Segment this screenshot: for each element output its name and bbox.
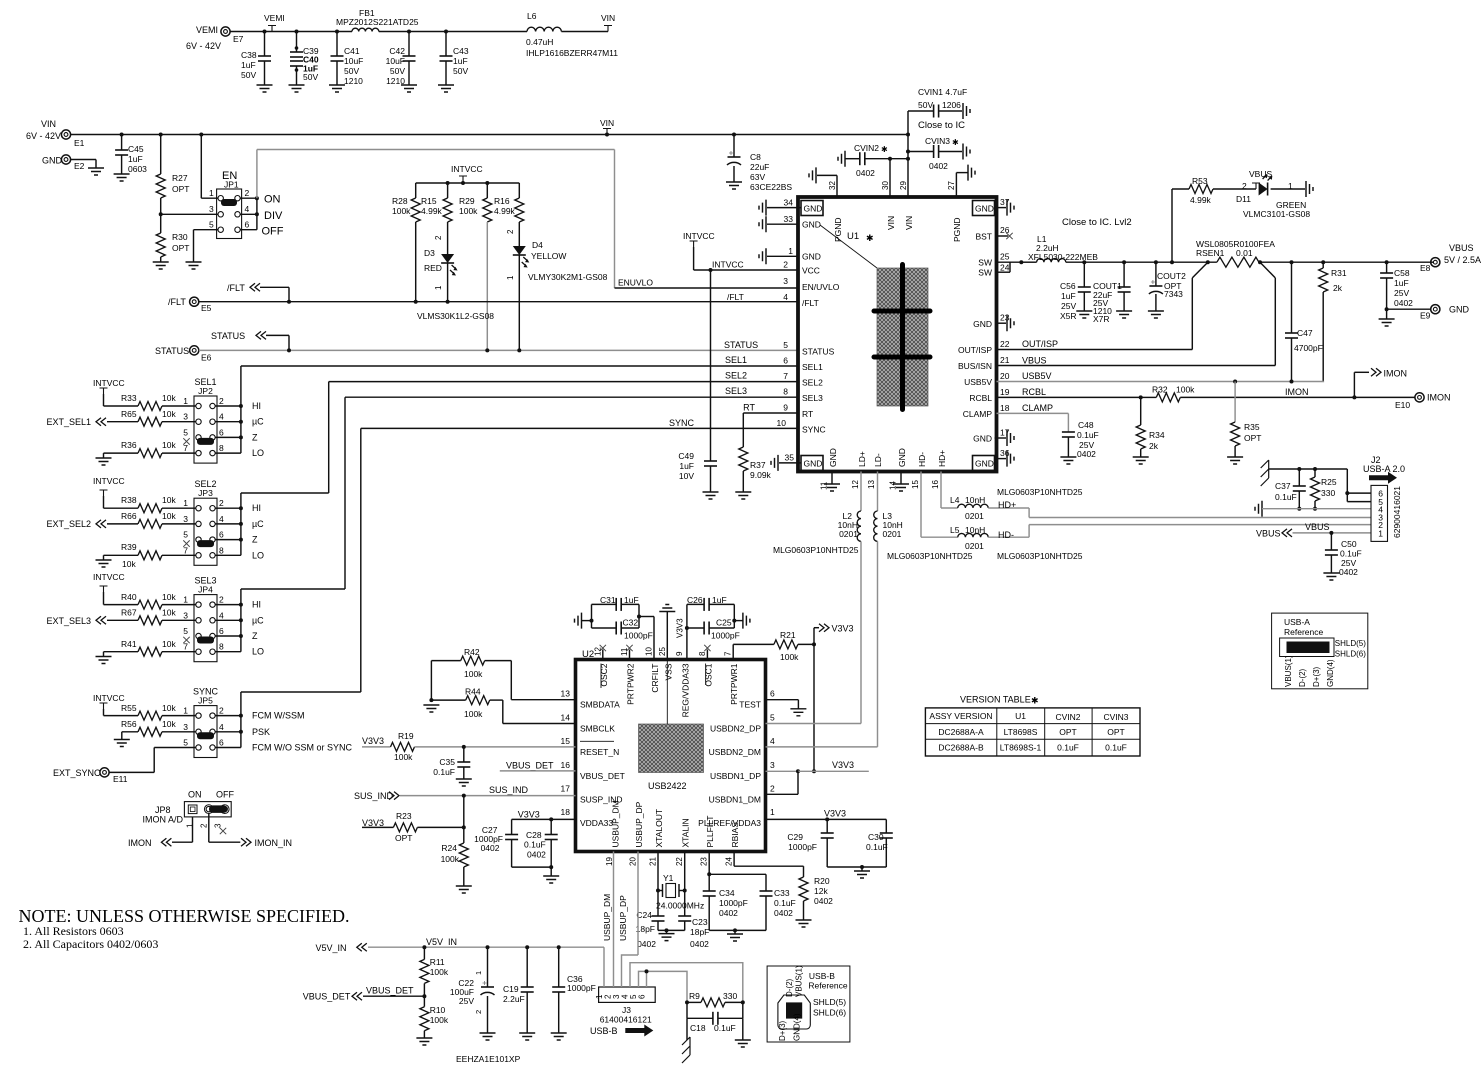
label MLG L2 xyxy=(773,545,859,555)
capacitor C19 xyxy=(503,947,534,1033)
svg-text:0603: 0603 xyxy=(128,164,147,174)
svg-text:✱: ✱ xyxy=(1031,696,1039,706)
svg-text:REG/VDDA33: REG/VDDA33 xyxy=(681,663,691,717)
shunt JP2 xyxy=(197,438,214,445)
svg-text:VBUS: VBUS xyxy=(1305,522,1330,532)
pin 1 xyxy=(183,595,201,608)
svg-text:SYNC: SYNC xyxy=(669,418,695,428)
svg-text:36: 36 xyxy=(1000,448,1010,458)
wire USBUP_DM xyxy=(602,852,614,988)
svg-text:VCC: VCC xyxy=(802,266,820,276)
svg-text:16: 16 xyxy=(931,480,940,489)
capacitor C38 xyxy=(241,32,271,86)
svg-text:FCM W/O SSM or SYNC: FCM W/O SSM or SYNC xyxy=(252,743,353,753)
ground xyxy=(543,876,559,883)
ground VSS xyxy=(659,605,675,660)
ground xyxy=(1116,311,1132,318)
svg-text:DC2688A-A: DC2688A-A xyxy=(938,727,984,737)
svg-text:8: 8 xyxy=(783,387,788,397)
svg-text:330: 330 xyxy=(1321,488,1335,498)
svg-text:0.1uF: 0.1uF xyxy=(524,840,546,850)
svg-text:10k: 10k xyxy=(162,608,176,618)
svg-text:RESET_N: RESET_N xyxy=(580,747,619,757)
svg-text:22uF: 22uF xyxy=(750,162,769,172)
wire HD- row xyxy=(1029,524,1371,526)
svg-text:2: 2 xyxy=(219,396,224,406)
wire SEL3 row xyxy=(345,386,798,397)
ground xyxy=(456,886,472,893)
svg-text:SUS_IND: SUS_IND xyxy=(489,785,529,795)
svg-text:GND: GND xyxy=(975,204,994,214)
svg-text:V5V_IN: V5V_IN xyxy=(316,943,347,953)
svg-text:0.47uH: 0.47uH xyxy=(526,37,553,47)
pin 3 xyxy=(183,722,201,735)
svg-text:3: 3 xyxy=(183,610,188,620)
svg-text:0201: 0201 xyxy=(883,529,902,539)
svg-text:0402: 0402 xyxy=(481,843,500,853)
pin 1 xyxy=(186,805,198,828)
capacitor CVIN1 xyxy=(906,87,970,137)
svg-text:1uF: 1uF xyxy=(128,154,143,164)
svg-text:ON: ON xyxy=(188,790,202,800)
pin 25 VSS xyxy=(658,647,674,681)
svg-text:SW: SW xyxy=(978,268,992,278)
svg-text:D-(2): D-(2) xyxy=(785,978,794,997)
pin 1 xyxy=(209,188,223,201)
svg-text:8: 8 xyxy=(219,545,224,555)
svg-text:100k: 100k xyxy=(430,967,449,977)
pin 4 xyxy=(210,514,224,527)
svg-text:JP3: JP3 xyxy=(198,488,213,498)
junction xyxy=(446,181,490,185)
svg-text:3: 3 xyxy=(183,412,188,422)
pin 2 xyxy=(210,498,224,511)
svg-text:10k: 10k xyxy=(162,511,176,521)
VSS internal wire xyxy=(666,661,668,724)
svg-text:50V: 50V xyxy=(918,100,933,110)
label µC xyxy=(252,417,264,427)
svg-text:4.99k: 4.99k xyxy=(421,206,443,216)
svg-text:R40: R40 xyxy=(121,592,137,602)
wire xyxy=(417,796,465,830)
pin 5 xyxy=(183,738,201,751)
ground xyxy=(438,85,454,92)
ground xyxy=(88,168,104,175)
capacitor C36 xyxy=(552,947,596,1033)
svg-text:25V: 25V xyxy=(1061,301,1076,311)
svg-text:10: 10 xyxy=(777,418,787,428)
svg-text:VERSION TABLE: VERSION TABLE xyxy=(960,695,1031,705)
wire xyxy=(240,212,259,216)
svg-text:50V: 50V xyxy=(303,72,318,82)
wire IMON row xyxy=(1180,387,1415,399)
svg-text:1: 1 xyxy=(506,275,515,280)
svg-text:5: 5 xyxy=(783,340,788,350)
pin 10 CRFILT xyxy=(645,647,661,693)
svg-text:25: 25 xyxy=(658,647,667,656)
node EXT_SEL3 xyxy=(46,616,138,626)
ground xyxy=(1379,319,1395,326)
wire xyxy=(766,700,799,709)
ground xyxy=(1076,311,1092,318)
pin 3 xyxy=(183,514,201,527)
node EXT_SEL1 xyxy=(46,417,138,427)
turret E8 xyxy=(1420,243,1481,273)
resistor R35 xyxy=(1231,382,1262,458)
wire HD+ from pin16 xyxy=(941,472,958,509)
svg-text:R32: R32 xyxy=(1152,385,1168,395)
svg-text:STATUS: STATUS xyxy=(802,347,835,357)
svg-text:4: 4 xyxy=(219,722,224,732)
resistor R11 xyxy=(420,947,449,996)
capacitor C25 xyxy=(704,618,740,641)
pin 2 xyxy=(200,805,214,828)
wire xyxy=(215,421,241,423)
wire xyxy=(215,554,241,556)
svg-text:1000pF: 1000pF xyxy=(624,631,653,641)
svg-text:0402: 0402 xyxy=(719,908,738,918)
pin 2 xyxy=(210,706,224,719)
svg-text:U1: U1 xyxy=(847,231,859,242)
pin 1 xyxy=(183,498,201,511)
svg-text:24: 24 xyxy=(725,857,734,866)
wire xyxy=(215,619,241,621)
resistor R53 xyxy=(1170,176,1256,264)
svg-text:R39: R39 xyxy=(121,542,137,552)
wire xyxy=(379,31,527,33)
svg-text:LD+: LD+ xyxy=(857,451,867,467)
wire xyxy=(215,539,241,541)
label µC xyxy=(252,615,264,625)
wire SEL1 bus xyxy=(240,366,242,406)
svg-text:22: 22 xyxy=(1000,339,1010,349)
crystal Y1 xyxy=(656,873,704,911)
ground xyxy=(1227,457,1243,464)
pin 11 xyxy=(820,448,841,491)
pin 5 xyxy=(183,530,201,543)
pin 5 xyxy=(183,427,201,440)
label Z xyxy=(252,432,258,442)
power INTVCC xyxy=(93,378,138,406)
wire xyxy=(215,604,241,606)
wire rail xyxy=(240,716,242,748)
wire USBDN1 V3V3 xyxy=(766,760,869,773)
svg-text:1000pF: 1000pF xyxy=(788,842,817,852)
svg-text:D11: D11 xyxy=(1236,194,1251,204)
node VBUS_DET arrow xyxy=(303,986,427,1002)
svg-text:SHLD(5): SHLD(5) xyxy=(1335,639,1366,648)
svg-text:0402: 0402 xyxy=(690,939,709,949)
resistor R31 xyxy=(1319,260,1347,381)
capacitor C33 xyxy=(760,888,796,930)
pin 12 LD+ xyxy=(851,451,867,489)
svg-text:GND(4): GND(4) xyxy=(1326,659,1335,687)
resistor R29 xyxy=(459,183,492,350)
svg-text:MLG0603P10NHTD25: MLG0603P10NHTD25 xyxy=(773,545,859,555)
svg-text:1uF: 1uF xyxy=(679,461,694,471)
wire xyxy=(215,405,241,407)
svg-text:50V: 50V xyxy=(344,66,359,76)
ground xyxy=(1133,457,1149,464)
svg-text:XTALOUT: XTALOUT xyxy=(654,809,664,848)
ground xyxy=(551,1033,567,1040)
wire SYNC bus xyxy=(241,428,361,715)
wire xyxy=(827,865,886,871)
svg-text:OUT/ISP: OUT/ISP xyxy=(1022,339,1058,349)
svg-text:IMON: IMON xyxy=(1285,387,1309,397)
svg-text:14: 14 xyxy=(561,713,571,723)
pin 8 xyxy=(210,545,224,558)
ground xyxy=(96,458,112,465)
svg-text:10k: 10k xyxy=(122,559,136,569)
USB-A reference box xyxy=(1272,613,1368,689)
svg-text:1000pF: 1000pF xyxy=(567,983,596,993)
svg-text:8: 8 xyxy=(219,642,224,652)
svg-text:25V: 25V xyxy=(1394,288,1409,298)
wire xyxy=(215,523,241,525)
svg-text:C30: C30 xyxy=(868,832,884,842)
svg-text:3: 3 xyxy=(209,204,214,214)
svg-text:25: 25 xyxy=(1000,252,1010,262)
svg-text:4700pF: 4700pF xyxy=(1294,343,1323,353)
svg-text:VLMC3101-GS08: VLMC3101-GS08 xyxy=(1243,209,1310,219)
svg-text:5: 5 xyxy=(209,220,214,230)
turret E9 xyxy=(1385,305,1470,321)
svg-text:J3: J3 xyxy=(622,1005,631,1015)
svg-text:2: 2 xyxy=(783,260,788,270)
svg-text:INTVCC: INTVCC xyxy=(712,260,744,270)
svg-text:E9: E9 xyxy=(1420,311,1431,321)
wire xyxy=(709,928,766,934)
pin 5 xyxy=(209,220,223,233)
svg-text:R10: R10 xyxy=(430,1005,446,1015)
svg-text:R16: R16 xyxy=(494,196,510,206)
wire xyxy=(215,731,241,733)
svg-text:7: 7 xyxy=(724,651,733,656)
svg-text:33: 33 xyxy=(784,214,794,224)
svg-text:R19: R19 xyxy=(398,731,414,741)
svg-text:FCM W/SSM: FCM W/SSM xyxy=(252,711,305,721)
svg-text:2: 2 xyxy=(770,783,775,793)
pin 19 RCBL xyxy=(969,387,1046,403)
wire xyxy=(109,748,196,773)
svg-text:CVIN1 4.7uF: CVIN1 4.7uF xyxy=(918,87,967,97)
svg-text:C23: C23 xyxy=(692,917,708,927)
svg-text:6: 6 xyxy=(219,427,224,437)
svg-text:C45: C45 xyxy=(128,144,144,154)
svg-text:PLLFILT: PLLFILT xyxy=(705,816,715,848)
shunt JP4 xyxy=(197,637,214,644)
svg-text:OSC1: OSC1 xyxy=(703,663,713,686)
svg-text:INTVCC: INTVCC xyxy=(683,231,715,241)
wire SEL1 row xyxy=(241,355,798,366)
pin 14 xyxy=(889,448,910,491)
svg-text:RED: RED xyxy=(424,263,442,273)
wire VBUS row xyxy=(1293,522,1372,535)
svg-text:EXT_SEL3: EXT_SEL3 xyxy=(46,616,91,626)
pin 20 USBUP_DP xyxy=(629,801,645,866)
svg-text:27: 27 xyxy=(947,181,956,190)
pin 19 USBUP_DM xyxy=(605,800,621,866)
svg-text:µC: µC xyxy=(252,615,264,625)
ground xyxy=(1148,311,1164,318)
U1 exposed pad xyxy=(874,265,930,410)
svg-text:4: 4 xyxy=(219,412,224,422)
pin 6 xyxy=(210,530,224,543)
svg-text:Reference: Reference xyxy=(1284,627,1323,637)
wire xyxy=(215,436,241,438)
svg-text:CLAMP: CLAMP xyxy=(963,409,993,419)
inductor L2 xyxy=(838,472,861,724)
diode D4 xyxy=(506,229,608,350)
node /FLT arrow xyxy=(227,283,291,304)
capacitor C43 xyxy=(440,30,469,86)
svg-text:OPT: OPT xyxy=(1244,433,1261,443)
pin 6 xyxy=(210,738,224,751)
svg-text:STATUS: STATUS xyxy=(211,331,245,341)
svg-text:DIV: DIV xyxy=(264,210,283,222)
wire kelvin ISP xyxy=(997,278,1193,350)
pin 18 CLAMP xyxy=(963,403,1053,419)
pin 4 xyxy=(235,204,250,217)
node V3V3 xyxy=(362,818,393,828)
svg-text:E10: E10 xyxy=(1395,400,1410,410)
svg-text:20: 20 xyxy=(629,857,638,866)
pin 5 USBDN2_DP xyxy=(710,713,775,734)
svg-text:R20: R20 xyxy=(814,876,830,886)
svg-text:CVIN3: CVIN3 xyxy=(1103,712,1128,722)
svg-text:10k: 10k xyxy=(162,495,176,505)
node EXT_SEL2 xyxy=(46,519,138,529)
svg-text:/FLT: /FLT xyxy=(802,298,819,308)
wire HD- from pin15 xyxy=(921,472,958,538)
svg-text:CRFILT: CRFILT xyxy=(650,664,660,693)
wire /FLT row xyxy=(199,301,798,303)
svg-text:63CE22BS: 63CE22BS xyxy=(750,182,792,192)
no-connect mark xyxy=(183,540,189,546)
svg-text:GND: GND xyxy=(42,156,63,166)
svg-text:3: 3 xyxy=(783,276,788,286)
svg-text:E5: E5 xyxy=(201,303,212,313)
ground xyxy=(1060,457,1076,464)
svg-text:22: 22 xyxy=(675,857,684,866)
svg-text:12: 12 xyxy=(851,480,860,489)
svg-text:C18: C18 xyxy=(690,1023,706,1033)
svg-text:JP1: JP1 xyxy=(224,180,239,190)
ground xyxy=(659,934,675,941)
label MLG L3 xyxy=(887,551,973,561)
svg-text:35: 35 xyxy=(785,453,795,463)
svg-text:3: 3 xyxy=(183,514,188,524)
wire xyxy=(194,230,219,262)
svg-text:INTVCC: INTVCC xyxy=(93,572,125,582)
svg-text:1000pF: 1000pF xyxy=(711,631,740,641)
capacitor C18 xyxy=(687,1002,743,1033)
svg-text:R55: R55 xyxy=(121,703,137,713)
label USB2422 xyxy=(648,781,687,791)
pin 13 LD- xyxy=(867,453,883,489)
svg-text:37: 37 xyxy=(1000,197,1010,207)
junction xyxy=(239,538,243,542)
capacitor COUT2 xyxy=(1149,260,1186,311)
pin 4 USBDN2_DM xyxy=(709,736,775,757)
jumper JP1 xyxy=(217,170,242,239)
svg-text:SUS_IND: SUS_IND xyxy=(354,791,394,801)
svg-text:RCBL: RCBL xyxy=(1022,387,1046,397)
svg-text:OSC2: OSC2 xyxy=(599,663,609,686)
svg-text:0402: 0402 xyxy=(774,908,793,918)
ground xyxy=(153,262,169,269)
svg-text:GND: GND xyxy=(973,319,992,329)
svg-text:SEL3: SEL3 xyxy=(802,393,823,403)
svg-text:NOTE: UNLESS OTHERWISE SPECIFI: NOTE: UNLESS OTHERWISE SPECIFIED. xyxy=(19,906,350,926)
wire xyxy=(645,969,649,987)
svg-text:INTVCC: INTVCC xyxy=(93,476,125,486)
svg-text:1: 1 xyxy=(1288,181,1293,191)
OSC2 overline xyxy=(600,664,602,689)
svg-text:C19: C19 xyxy=(503,984,519,994)
pin 37 xyxy=(995,197,1015,216)
svg-text:PGND: PGND xyxy=(833,217,843,242)
svg-text:1: 1 xyxy=(1378,529,1383,539)
svg-text:VDDA33: VDDA33 xyxy=(580,818,613,828)
resistor R55 xyxy=(121,703,196,720)
junction xyxy=(239,618,243,622)
svg-text:C35: C35 xyxy=(439,757,455,767)
svg-text:0.1uF: 0.1uF xyxy=(433,767,455,777)
svg-text:0201: 0201 xyxy=(965,541,984,551)
wire xyxy=(812,644,816,773)
pin 4 xyxy=(210,610,224,623)
resistor R20 xyxy=(799,876,833,920)
svg-text:26: 26 xyxy=(1000,225,1010,235)
shunt JP8 xyxy=(209,805,227,813)
svg-text:R24: R24 xyxy=(441,843,457,853)
resistor RSEN1 xyxy=(1192,239,1275,278)
pin 6 xyxy=(210,626,224,639)
svg-text:VIN: VIN xyxy=(600,118,614,128)
IC U1 body xyxy=(798,197,997,472)
svg-text:C25: C25 xyxy=(716,618,732,628)
node IMON arrow xyxy=(1354,368,1407,397)
inductor L1 xyxy=(1021,234,1430,262)
svg-text:100k: 100k xyxy=(430,1015,449,1025)
svg-text:R31: R31 xyxy=(1331,268,1347,278)
svg-text:VLMY30K2M1-GS08: VLMY30K2M1-GS08 xyxy=(528,272,608,282)
svg-text:1: 1 xyxy=(770,807,775,817)
svg-text:ASSY VERSION: ASSY VERSION xyxy=(929,711,992,721)
svg-text:2: 2 xyxy=(1242,181,1247,191)
svg-text:Z: Z xyxy=(252,432,258,442)
svg-text:1: 1 xyxy=(183,396,188,406)
ground xyxy=(96,560,112,567)
pin 20 USB5V xyxy=(964,371,1051,387)
inductor L4 xyxy=(950,495,1029,521)
power INTVCC xyxy=(93,693,138,716)
svg-text:Z: Z xyxy=(252,631,258,641)
svg-text:E6: E6 xyxy=(201,353,212,363)
svg-text:INTVCC: INTVCC xyxy=(451,164,483,174)
junction xyxy=(239,506,243,510)
svg-text:4: 4 xyxy=(245,204,250,214)
svg-text:VIN: VIN xyxy=(41,119,56,129)
resistor R19 xyxy=(391,731,415,762)
label FCM W/O SSM or SYNC xyxy=(252,743,353,753)
power INTVCC xyxy=(93,572,138,605)
label /FLT xyxy=(727,292,744,302)
pin 7 SEL2 xyxy=(783,371,823,388)
svg-text:17: 17 xyxy=(1000,428,1010,438)
